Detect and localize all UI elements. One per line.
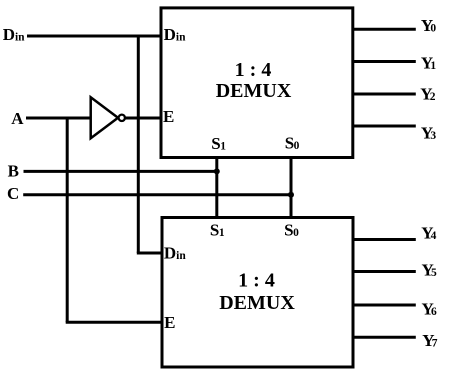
wire Y4 [353,238,416,241]
svg-text:1 : 4: 1 : 4 [238,270,275,292]
wire A branch vertical [66,117,69,323]
demux U2 box [162,218,353,368]
demux U1 box [161,8,353,158]
wire S1 vertical U1-U2 [215,157,218,219]
junction C-S0 [288,192,294,198]
svg-text:1 : 4: 1 : 4 [235,59,272,81]
svg-text:A: A [11,109,24,128]
wire Y2 [352,93,416,96]
svg-text:C: C [7,184,19,203]
wire Din branch to U2 Din [137,252,163,255]
wire A branch to U2 E [66,321,163,324]
wire Y3 [352,125,416,128]
wire Y5 [353,270,416,273]
wire Y1 [352,60,416,63]
inverter gate triangle [91,97,118,138]
wire S0 vertical U1-U2 [290,157,293,219]
junction B-S1 [214,168,220,174]
svg-text:B: B [8,161,19,180]
wire Y6 [353,304,416,307]
wire B input [24,170,219,173]
wire Y0 [352,28,416,31]
wire C input [23,193,292,196]
wire inverter output to U1 E [124,117,161,120]
wire Din branch vertical [137,35,140,254]
svg-text:DEMUX: DEMUX [219,292,295,314]
wire A input [26,117,91,120]
svg-text:DEMUX: DEMUX [216,80,292,102]
svg-text:E: E [164,313,175,332]
svg-text:E: E [163,107,174,126]
wire Din input horizontal [27,35,161,38]
inverter bubble [119,115,125,121]
wire Y7 [353,336,416,339]
